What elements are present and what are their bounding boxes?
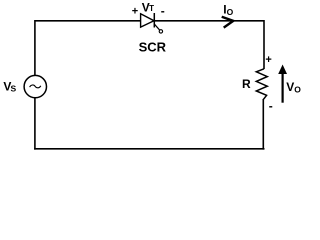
SCR thyristor U1 — [141, 13, 163, 33]
SCR anode triangle — [141, 14, 154, 27]
svg-text:SCR: SCR — [139, 39, 167, 54]
voltage arrow VO (upward arrow) — [278, 65, 287, 103]
wire: top right segment (SCR cathode to top-right corner) — [154, 20, 264, 22]
wire: top left segment (source to SCR anode) — [35, 20, 141, 22]
svg-text:-: - — [269, 99, 273, 113]
ac source VS (circle with sine) — [24, 75, 46, 97]
SCR cathode bar — [153, 13, 155, 28]
wire: bottom horizontal — [34, 148, 264, 150]
svg-text:VO: VO — [286, 80, 301, 94]
resistor R (zigzag) — [256, 69, 267, 100]
SCR gate lead — [154, 24, 159, 30]
svg-text:-: - — [161, 4, 165, 18]
wire: right vertical above resistor — [263, 20, 265, 69]
svg-text:R: R — [242, 77, 251, 91]
svg-text:VT: VT — [142, 0, 154, 14]
svg-text:+: + — [132, 5, 138, 17]
current arrow IO (chevron on top wire) — [222, 17, 234, 28]
svg-text:VS: VS — [3, 80, 16, 94]
wire: right vertical below resistor — [262, 100, 264, 150]
wire: left vertical — [34, 20, 36, 150]
svg-text:IO: IO — [223, 3, 233, 17]
svg-text:+: + — [265, 54, 271, 66]
SCR gate terminal circle — [159, 30, 162, 33]
